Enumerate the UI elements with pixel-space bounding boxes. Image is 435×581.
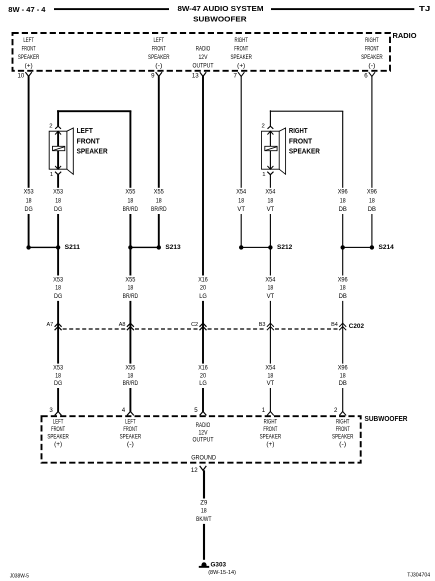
- wire label X96: [334, 364, 352, 388]
- svg-text:LG: LG: [199, 380, 207, 387]
- svg-text:RIGHT: RIGHT: [336, 418, 350, 425]
- svg-text:BR/RD: BR/RD: [151, 206, 167, 213]
- svg-text:3: 3: [49, 407, 53, 414]
- svg-text:18: 18: [128, 285, 134, 292]
- wire label X96: [334, 276, 352, 301]
- svg-text:BK/WT: BK/WT: [196, 516, 212, 523]
- svg-text:X96: X96: [367, 189, 378, 196]
- svg-text:SUBWOOFER: SUBWOOFER: [193, 14, 247, 23]
- svg-text:(+): (+): [54, 441, 62, 448]
- svg-text:18: 18: [340, 285, 346, 292]
- svg-text:SPEAKER: SPEAKER: [77, 147, 109, 156]
- svg-text:A8: A8: [119, 322, 126, 328]
- svg-text:13: 13: [192, 72, 199, 79]
- svg-text:BR/RD: BR/RD: [123, 380, 139, 387]
- wire X55 speaker pin2 branch down to S213: [129, 111, 131, 247]
- svg-text:OUTPUT: OUTPUT: [193, 62, 214, 69]
- svg-text:X16: X16: [198, 365, 208, 372]
- svg-text:X55: X55: [125, 365, 136, 372]
- speaker inner wire: [270, 131, 271, 146]
- speaker body: [49, 131, 67, 169]
- wire X53 left speaker pin1 to S211: [57, 175, 59, 248]
- svg-text:18: 18: [128, 372, 134, 379]
- wire label X55: [121, 188, 139, 214]
- svg-text:VT: VT: [267, 293, 275, 300]
- svg-text:VT: VT: [267, 380, 275, 387]
- speaker body: [262, 131, 280, 169]
- ground G303: [201, 562, 206, 566]
- svg-text:B4: B4: [331, 322, 338, 328]
- subwoofer component box: [42, 416, 361, 463]
- svg-text:18: 18: [268, 372, 274, 379]
- svg-text:VT: VT: [267, 206, 275, 213]
- svg-text:FRONT: FRONT: [51, 426, 65, 433]
- svg-text:18: 18: [340, 197, 346, 204]
- svg-text:7: 7: [234, 72, 238, 79]
- svg-text:(-): (-): [368, 62, 375, 69]
- svg-text:J038W-5: J038W-5: [10, 573, 29, 579]
- svg-text:10: 10: [18, 72, 25, 79]
- svg-text:SPEAKER: SPEAKER: [120, 433, 142, 440]
- svg-text:SPEAKER: SPEAKER: [332, 433, 354, 440]
- splice S212: [241, 247, 270, 248]
- wire label X55: [121, 364, 139, 388]
- svg-text:1: 1: [262, 407, 266, 414]
- left front speaker top feed wire: [57, 110, 131, 112]
- wire X54 right speaker pin1 to S212: [270, 175, 271, 248]
- svg-text:8W-47 AUDIO SYSTEM: 8W-47 AUDIO SYSTEM: [178, 4, 264, 13]
- header rule right: [271, 8, 414, 10]
- svg-text:18: 18: [268, 197, 274, 204]
- right front speaker top feed wire: [270, 111, 343, 112]
- radio component box: [13, 33, 391, 71]
- svg-text:1: 1: [262, 172, 265, 178]
- svg-text:(-): (-): [339, 441, 346, 448]
- wire X54 S212 to C202 B3: [270, 247, 271, 411]
- svg-text:B3: B3: [259, 322, 266, 328]
- svg-text:18: 18: [340, 372, 346, 379]
- svg-text:X53: X53: [53, 276, 64, 283]
- wire X16 radio pin13 down to subwoofer pin5: [202, 76, 204, 411]
- svg-text:RIGHT: RIGHT: [264, 418, 278, 425]
- splice S213: [130, 247, 158, 248]
- svg-text:LG: LG: [199, 293, 207, 300]
- svg-text:6: 6: [364, 72, 368, 79]
- svg-text:DG: DG: [54, 380, 62, 387]
- svg-text:X53: X53: [24, 189, 35, 196]
- svg-text:FRONT: FRONT: [22, 45, 36, 52]
- svg-text:X54: X54: [265, 365, 276, 372]
- wire label X53: [49, 188, 67, 214]
- wire label X53: [49, 276, 67, 301]
- speaker coil box: [53, 146, 65, 150]
- wire label X16: [194, 364, 212, 388]
- svg-text:C2: C2: [191, 322, 198, 328]
- svg-text:18: 18: [268, 285, 274, 292]
- svg-text:SPEAKER: SPEAKER: [289, 147, 321, 156]
- svg-text:FRONT: FRONT: [263, 426, 277, 433]
- svg-text:X96: X96: [338, 365, 349, 372]
- svg-text:5: 5: [194, 407, 198, 414]
- svg-text:2: 2: [49, 124, 52, 130]
- svg-text:9: 9: [151, 72, 155, 79]
- svg-text:SPEAKER: SPEAKER: [148, 54, 170, 61]
- svg-text:DB: DB: [339, 293, 347, 300]
- svg-text:FRONT: FRONT: [123, 426, 137, 433]
- svg-text:18: 18: [369, 197, 375, 204]
- wire X53 radio pin10 to S211: [28, 76, 30, 247]
- wire label X55: [150, 188, 168, 214]
- svg-text:SPEAKER: SPEAKER: [361, 54, 383, 61]
- speaker inner wire: [57, 131, 59, 146]
- svg-text:18: 18: [128, 197, 134, 204]
- svg-text:18: 18: [156, 197, 162, 204]
- svg-text:FRONT: FRONT: [152, 45, 166, 52]
- svg-text:VT: VT: [237, 206, 245, 213]
- svg-text:18: 18: [201, 508, 207, 515]
- svg-text:LEFT: LEFT: [77, 126, 94, 135]
- svg-text:X96: X96: [338, 276, 349, 283]
- wire speaker pin2 drop: [270, 110, 271, 126]
- svg-text:DB: DB: [339, 206, 347, 213]
- wire X54 radio pin7 to S212: [241, 76, 242, 247]
- wire X55 S213 to C202 A8: [129, 247, 131, 411]
- svg-text:A7: A7: [46, 322, 53, 328]
- svg-text:RIGHT: RIGHT: [234, 37, 248, 44]
- svg-text:4: 4: [122, 407, 126, 414]
- svg-text:FRONT: FRONT: [234, 45, 248, 52]
- svg-text:DG: DG: [25, 206, 33, 213]
- wire X53 S211 to C202 A7: [57, 247, 59, 411]
- svg-text:(+): (+): [266, 441, 274, 448]
- svg-text:Z9: Z9: [200, 499, 208, 506]
- header rule left: [54, 8, 169, 10]
- svg-text:S214: S214: [379, 244, 395, 251]
- svg-text:X54: X54: [265, 276, 276, 283]
- svg-text:(+): (+): [25, 62, 33, 69]
- svg-text:FRONT: FRONT: [289, 136, 313, 145]
- svg-text:BR/RD: BR/RD: [123, 206, 139, 213]
- splice S211: [29, 247, 58, 248]
- wire label X54: [261, 364, 279, 388]
- svg-text:G303: G303: [211, 561, 227, 568]
- svg-text:X55: X55: [154, 189, 165, 196]
- svg-text:18: 18: [55, 197, 61, 204]
- svg-text:FRONT: FRONT: [336, 426, 350, 433]
- svg-text:X96: X96: [338, 189, 349, 196]
- wire X96 speaker pin2 branch down to S214: [342, 111, 343, 247]
- svg-text:X54: X54: [265, 189, 276, 196]
- svg-text:X53: X53: [53, 365, 64, 372]
- svg-text:SUBWOOFER: SUBWOOFER: [365, 416, 408, 423]
- svg-text:LEFT: LEFT: [125, 418, 136, 425]
- svg-text:(-): (-): [155, 62, 162, 69]
- svg-text:RIGHT: RIGHT: [289, 126, 308, 135]
- svg-text:12V: 12V: [199, 54, 209, 61]
- svg-text:TJ: TJ: [419, 4, 430, 13]
- svg-text:DB: DB: [368, 206, 376, 213]
- svg-text:(8W-15-14): (8W-15-14): [208, 570, 236, 576]
- svg-text:FRONT: FRONT: [77, 136, 101, 145]
- svg-text:18: 18: [55, 372, 61, 379]
- svg-text:SPEAKER: SPEAKER: [47, 433, 69, 440]
- wire label X96: [334, 188, 352, 214]
- wire speaker pin2 drop: [57, 110, 59, 126]
- svg-text:X16: X16: [198, 276, 208, 283]
- svg-text:DG: DG: [54, 206, 62, 213]
- svg-text:8W - 47 - 4: 8W - 47 - 4: [8, 5, 46, 14]
- svg-text:X54: X54: [236, 189, 247, 196]
- speaker cone: [279, 128, 285, 174]
- svg-text:12V: 12V: [199, 429, 209, 436]
- wire label Z9: [195, 499, 213, 524]
- connector C202 dashed line: [63, 328, 126, 330]
- svg-text:20: 20: [200, 285, 207, 292]
- wire label X54: [261, 188, 279, 214]
- svg-text:X53: X53: [53, 189, 64, 196]
- wire X96 radio pin6 to S214: [371, 76, 372, 247]
- svg-text:(+): (+): [237, 62, 245, 69]
- wire label X16: [194, 276, 212, 301]
- svg-text:S211: S211: [65, 244, 81, 251]
- svg-text:20: 20: [200, 372, 207, 379]
- svg-text:LEFT: LEFT: [154, 37, 165, 44]
- svg-text:18: 18: [55, 285, 61, 292]
- speaker cone: [67, 128, 73, 174]
- svg-text:LEFT: LEFT: [53, 418, 64, 425]
- svg-text:X55: X55: [125, 189, 136, 196]
- svg-text:2: 2: [334, 407, 338, 414]
- wire label X53: [20, 188, 38, 214]
- wire label X54: [232, 188, 250, 214]
- speaker coil box: [265, 146, 277, 150]
- svg-text:C202: C202: [349, 323, 365, 330]
- svg-text:2: 2: [262, 124, 265, 130]
- svg-text:TJ304704: TJ304704: [407, 573, 430, 579]
- wire label X54: [261, 276, 279, 301]
- svg-text:18: 18: [26, 197, 32, 204]
- svg-text:SPEAKER: SPEAKER: [18, 54, 40, 61]
- svg-text:RIGHT: RIGHT: [365, 37, 379, 44]
- svg-text:RADIO: RADIO: [196, 422, 211, 429]
- splice S214: [343, 247, 372, 248]
- svg-text:DB: DB: [339, 380, 347, 387]
- wire Z9 subwoofer pin12 to G303: [203, 470, 205, 560]
- wire X55 radio pin9 to S213: [158, 76, 160, 247]
- svg-text:S212: S212: [277, 244, 293, 251]
- svg-text:BR/RD: BR/RD: [123, 293, 139, 300]
- svg-text:LEFT: LEFT: [23, 37, 34, 44]
- wire label X55: [121, 276, 139, 301]
- svg-text:1: 1: [50, 172, 53, 178]
- wire X96 S214 to C202 B4: [342, 247, 343, 411]
- svg-text:RADIO: RADIO: [196, 45, 211, 52]
- svg-text:X55: X55: [125, 276, 136, 283]
- svg-text:S213: S213: [165, 244, 181, 251]
- svg-text:FRONT: FRONT: [365, 45, 379, 52]
- svg-text:DG: DG: [54, 293, 62, 300]
- svg-text:SPEAKER: SPEAKER: [260, 433, 282, 440]
- svg-text:(-): (-): [127, 441, 134, 448]
- wire label X96: [363, 188, 381, 214]
- svg-text:RADIO: RADIO: [393, 33, 418, 40]
- wire label X53: [49, 364, 67, 388]
- svg-text:12: 12: [191, 467, 198, 474]
- svg-text:GROUND: GROUND: [191, 455, 216, 462]
- svg-text:18: 18: [238, 197, 244, 204]
- svg-text:SPEAKER: SPEAKER: [230, 54, 252, 61]
- svg-text:OUTPUT: OUTPUT: [193, 437, 214, 444]
